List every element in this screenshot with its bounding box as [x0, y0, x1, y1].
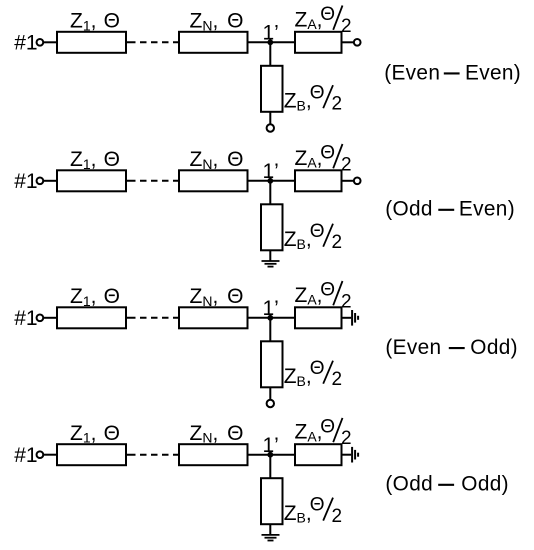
svg-text:Odd): Odd) [470, 336, 518, 359]
svg-text:ZA,: ZA, [295, 421, 323, 445]
transmission line section ZA (row 3) [295, 307, 342, 328]
junction dot node 1' (row 4) [267, 452, 273, 458]
junction dot node 1' (row 3) [267, 315, 273, 321]
dashed wire cascade continuation (row 3) [126, 317, 179, 319]
row 4: stepped-impedance resonator circuit (Odd – Odd) [14, 416, 509, 540]
transmission line section ZA (row 4) [295, 444, 342, 465]
wire node 1' down to ZB (row 2) [269, 181, 271, 205]
svg-text:Z1,: Z1, [70, 285, 96, 309]
svg-text:ZB,: ZB, [284, 90, 312, 114]
svg-text:Θ: Θ [227, 10, 243, 33]
svg-text:1’: 1’ [263, 434, 279, 457]
transmission line section ZN (row 4) [179, 444, 248, 465]
wire node 1' down to ZB (row 4) [269, 455, 271, 479]
svg-text:Θ: Θ [320, 280, 335, 301]
transmission line stub ZB (row 3) [261, 341, 283, 387]
value label ZB, theta/2 (row 2) [284, 221, 342, 253]
svg-text:#1: #1 [14, 444, 37, 467]
wire node 1' down to ZB (row 3) [269, 318, 271, 342]
svg-text:Even): Even) [459, 198, 515, 221]
svg-text:Θ: Θ [227, 285, 243, 308]
svg-text:Θ: Θ [320, 143, 335, 164]
wire ZA to right termination (row 4) [342, 454, 352, 456]
value label ZN, theta (row 2) [190, 148, 244, 172]
row 2: stepped-impedance resonator circuit (Odd – Even) [14, 143, 515, 267]
junction dot node 1' (row 2) [267, 178, 273, 184]
caption (Even – Even) (row 1) [384, 61, 521, 84]
svg-text:1’: 1’ [263, 297, 279, 320]
svg-text:Z1,: Z1, [70, 422, 96, 446]
caption (Odd – Odd) (row 4) [385, 473, 509, 496]
value label ZN, theta (row 1) [190, 10, 244, 34]
transmission line section Z1 (row 1) [57, 32, 126, 53]
dashed wire cascade continuation (row 1) [126, 41, 179, 43]
transmission line section ZN (row 3) [179, 307, 248, 328]
caption (Even – Odd) (row 3) [385, 336, 518, 359]
svg-text:(Even: (Even [385, 336, 441, 359]
row 3: stepped-impedance resonator circuit (Even – Odd) [14, 280, 518, 408]
open-circuit terminal bottom (row 3) [267, 400, 274, 407]
value label ZA, theta/2 (row 1) [295, 4, 352, 37]
svg-text:#1: #1 [14, 32, 37, 55]
wire port #1 to Z1 (row 3) [43, 317, 57, 319]
svg-text:Θ: Θ [104, 285, 120, 308]
svg-text:ZN,: ZN, [190, 10, 219, 34]
wire ZA to right termination (row 3) [342, 317, 352, 319]
svg-text:ZN,: ZN, [190, 148, 219, 172]
svg-text:(Even: (Even [384, 61, 440, 84]
transmission line section Z1 (row 2) [57, 170, 126, 191]
svg-text:Θ: Θ [310, 358, 325, 379]
svg-text:Θ: Θ [320, 4, 335, 25]
wire port #1 to Z1 (row 2) [43, 180, 57, 182]
wire ZA to right termination (row 1) [342, 41, 354, 43]
svg-text:2: 2 [341, 16, 352, 37]
caption (Odd – Even) (row 2) [385, 198, 515, 221]
value label ZB, theta/2 (row 1) [284, 82, 342, 114]
svg-text:2: 2 [332, 94, 343, 115]
svg-text:Z1,: Z1, [70, 10, 96, 34]
svg-text:Even): Even) [465, 61, 521, 84]
svg-text:Θ: Θ [227, 148, 243, 171]
svg-text:Θ: Θ [310, 221, 325, 242]
svg-text:Z1,: Z1, [70, 148, 96, 172]
wire ZB to bottom termination (row 3) [269, 387, 271, 400]
open terminal circle port #1 (row 2) [37, 177, 44, 184]
svg-text:ZB,: ZB, [284, 502, 312, 526]
transmission line section ZA (row 1) [295, 32, 342, 53]
open terminal circle port #1 (row 4) [37, 451, 44, 458]
svg-text:ZN,: ZN, [190, 422, 219, 446]
ground symbol bottom (row 2) [262, 261, 280, 267]
transmission line section ZA (row 2) [295, 170, 342, 191]
svg-text:Θ: Θ [320, 416, 335, 437]
transmission line stub ZB (row 4) [261, 478, 283, 524]
svg-text:Odd): Odd) [461, 473, 509, 496]
svg-text:1’: 1’ [263, 160, 279, 183]
svg-text:(Odd: (Odd [385, 198, 433, 221]
svg-text:1’: 1’ [263, 22, 279, 45]
svg-text:2: 2 [341, 154, 352, 175]
transmission line section Z1 (row 3) [57, 307, 126, 328]
open terminal circle port #1 (row 1) [37, 39, 44, 46]
ground short-circuit terminal right (row 4) [352, 447, 358, 463]
value label ZA, theta/2 (row 3) [295, 280, 352, 313]
open-circuit terminal right (row 2) [354, 177, 361, 184]
svg-text:Θ: Θ [227, 422, 243, 445]
svg-text:#1: #1 [14, 170, 37, 193]
ground short-circuit terminal right (row 3) [352, 310, 358, 326]
transmission line section ZN (row 2) [179, 170, 248, 191]
transmission line section Z1 (row 4) [57, 444, 126, 465]
svg-text:2: 2 [332, 232, 343, 253]
transmission line stub ZB (row 1) [261, 66, 283, 112]
wire ZA to right termination (row 2) [342, 180, 354, 182]
wire ZN to ZA through node 1' (row 1) [248, 41, 296, 43]
value label Z1, theta (row 4) [70, 422, 120, 446]
row 1: stepped-impedance resonator circuit (Even – Even) [14, 4, 521, 132]
svg-text:2: 2 [341, 428, 352, 449]
svg-text:ZA,: ZA, [295, 284, 323, 308]
svg-text:(Odd: (Odd [385, 473, 433, 496]
svg-text:Θ: Θ [310, 82, 325, 103]
junction dot node 1' (row 1) [267, 39, 273, 45]
svg-text:ZA,: ZA, [295, 147, 323, 171]
svg-text:2: 2 [332, 369, 343, 390]
svg-text:ZN,: ZN, [190, 285, 219, 309]
wire ZN to ZA through node 1' (row 3) [248, 317, 296, 319]
open terminal circle port #1 (row 3) [37, 314, 44, 321]
value label ZB, theta/2 (row 4) [284, 495, 342, 527]
wire ZN to ZA through node 1' (row 2) [248, 180, 296, 182]
ground symbol bottom (row 4) [262, 535, 280, 541]
value label ZB, theta/2 (row 3) [284, 358, 342, 390]
open-circuit terminal bottom (row 1) [267, 124, 274, 131]
transmission line section ZN (row 1) [179, 32, 248, 53]
dashed wire cascade continuation (row 4) [126, 454, 179, 456]
svg-text:ZB,: ZB, [284, 365, 312, 389]
value label ZA, theta/2 (row 2) [295, 143, 352, 176]
transmission line stub ZB (row 2) [261, 204, 283, 250]
svg-text:2: 2 [332, 506, 343, 527]
value label Z1, theta (row 3) [70, 285, 120, 309]
wire port #1 to Z1 (row 1) [43, 41, 57, 43]
wire ZN to ZA through node 1' (row 4) [248, 454, 296, 456]
value label Z1, theta (row 1) [70, 10, 120, 34]
svg-text:Θ: Θ [104, 10, 120, 33]
dashed wire cascade continuation (row 2) [126, 180, 179, 182]
svg-text:2: 2 [341, 291, 352, 312]
value label ZN, theta (row 3) [190, 285, 244, 309]
wire ZB to bottom termination (row 4) [269, 524, 271, 534]
svg-text:ZA,: ZA, [295, 8, 323, 32]
svg-text:ZB,: ZB, [284, 228, 312, 252]
open-circuit terminal right (row 1) [354, 39, 361, 46]
value label ZN, theta (row 4) [190, 422, 244, 446]
wire ZB to bottom termination (row 2) [269, 250, 271, 260]
wire port #1 to Z1 (row 4) [43, 454, 57, 456]
svg-text:#1: #1 [14, 307, 37, 330]
value label Z1, theta (row 2) [70, 148, 120, 172]
wire node 1' down to ZB (row 1) [269, 42, 271, 66]
svg-text:Θ: Θ [104, 422, 120, 445]
wire ZB to bottom termination (row 1) [269, 112, 271, 125]
value label ZA, theta/2 (row 4) [295, 416, 352, 449]
svg-text:Θ: Θ [104, 148, 120, 171]
svg-text:Θ: Θ [310, 495, 325, 516]
